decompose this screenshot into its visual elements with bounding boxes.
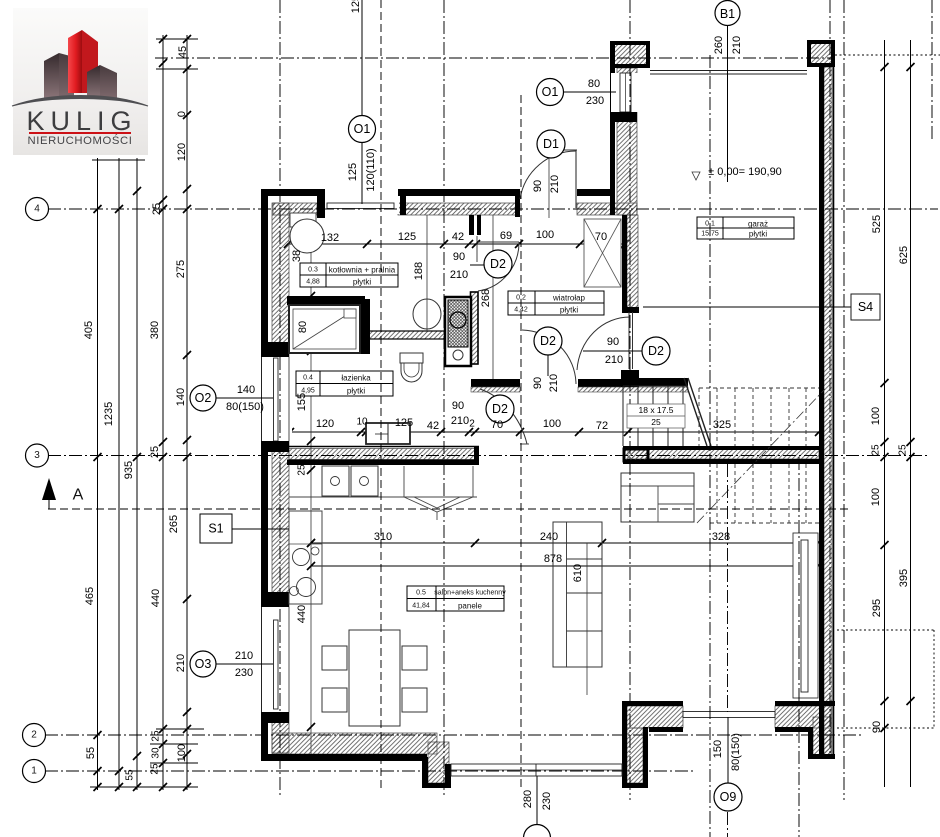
circle O2	[190, 385, 216, 411]
svg-text:268: 268	[480, 289, 492, 307]
svg-text:120: 120	[316, 418, 334, 430]
chain stubs	[156, 38, 198, 40]
logo swoosh	[12, 96, 148, 107]
svg-text:płytki: płytki	[353, 278, 371, 287]
vertical axis x710	[709, 55, 711, 837]
svg-text:S1: S1	[208, 522, 223, 536]
room label tables	[296, 217, 794, 611]
svg-text:150: 150	[712, 740, 724, 758]
svg-text:55: 55	[125, 769, 136, 781]
svg-text:± 0,00= 190,90: ± 0,00= 190,90	[708, 166, 782, 178]
svg-text:188: 188	[413, 262, 425, 280]
svg-text:płytki: płytki	[749, 230, 767, 239]
axis circle 2	[23, 724, 46, 747]
wall hatch right side	[824, 67, 832, 755]
svg-text:90: 90	[607, 336, 619, 348]
fixtures and furniture	[289, 213, 694, 726]
hall-salon walls	[471, 379, 520, 387]
window right wall tall	[793, 533, 818, 698]
bottom wall salon	[261, 754, 427, 761]
svg-text:D2: D2	[648, 344, 664, 358]
svg-text:D1: D1	[543, 137, 559, 151]
svg-text:132: 132	[321, 232, 339, 244]
svg-text:90: 90	[453, 251, 465, 263]
door D2 to stairs	[628, 312, 630, 369]
svg-text:100: 100	[176, 744, 188, 762]
svg-text:O1: O1	[354, 122, 371, 136]
svg-text:120(110): 120(110)	[365, 148, 377, 191]
svg-text:A: A	[73, 487, 84, 504]
svg-text:525: 525	[871, 215, 883, 233]
svg-text:210: 210	[451, 415, 469, 427]
wall hatch top-mid	[398, 203, 519, 215]
logo building center red	[68, 30, 82, 93]
ticks	[94, 205, 102, 213]
wall hatch top-left	[273, 203, 317, 215]
svg-text:NIERUCHOMOŚCI: NIERUCHOMOŚCI	[27, 134, 132, 147]
svg-text:25: 25	[151, 730, 162, 742]
svg-text:45: 45	[177, 46, 189, 58]
svg-text:610: 610	[572, 564, 584, 582]
circle D2 boiler	[484, 250, 512, 278]
stairs text	[627, 404, 685, 428]
wall hatch garage left upper	[617, 68, 637, 215]
svg-text:100: 100	[543, 418, 561, 430]
svg-text:125: 125	[398, 231, 416, 243]
svg-text:0.3: 0.3	[308, 267, 318, 274]
svg-text:395: 395	[898, 569, 910, 587]
svg-text:80: 80	[297, 321, 309, 333]
svg-text:łazienka: łazienka	[341, 374, 371, 383]
svg-text:3: 3	[34, 450, 40, 461]
svg-text:260: 260	[713, 36, 725, 54]
svg-text:25: 25	[297, 464, 308, 476]
circle O3	[190, 651, 216, 677]
wall hatch porch right post	[627, 728, 643, 783]
wall hatch garage left lower	[627, 215, 638, 308]
axis 2	[45, 734, 862, 736]
svg-text:1235: 1235	[103, 402, 115, 426]
dining table	[349, 630, 400, 726]
logo KULIG NIERUCHOMOSCI	[12, 8, 148, 155]
dim 188 line	[426, 215, 428, 331]
svg-text:80(150): 80(150)	[226, 401, 264, 413]
boiler	[290, 213, 316, 227]
axis circle 1	[23, 760, 46, 783]
right wall	[819, 67, 824, 759]
circle O9	[714, 783, 742, 811]
circle D2 bath	[486, 395, 514, 423]
table lazienka	[296, 371, 393, 396]
leader lines	[361, 142, 363, 204]
window 280x230 bottom	[451, 764, 622, 776]
sofa	[553, 522, 602, 667]
middle wall left span	[287, 446, 479, 448]
svg-text:D2: D2	[492, 402, 508, 416]
circle D2 stairs	[642, 337, 670, 365]
axis 4	[48, 208, 938, 210]
svg-text:4: 4	[34, 204, 40, 215]
vertical axis x830	[829, 0, 831, 757]
svg-text:295: 295	[871, 599, 883, 617]
svg-text:230: 230	[541, 792, 553, 810]
vertical axis x521 dashed	[520, 95, 522, 790]
porch left post	[422, 757, 428, 788]
kitchen counter top	[289, 496, 477, 498]
stairs	[623, 378, 825, 523]
garage pillar top-left	[612, 43, 648, 66]
wall hatch middle right (under stairs)	[628, 449, 819, 459]
table salon	[407, 586, 504, 611]
svg-text:30: 30	[151, 747, 162, 759]
svg-text:80(150): 80(150)	[730, 733, 742, 771]
stair dashed upper flight	[699, 388, 819, 446]
svg-text:18 x 17.5: 18 x 17.5	[639, 405, 674, 415]
svg-text:42: 42	[452, 231, 464, 243]
door D1 entrance	[553, 149, 577, 151]
svg-text:465: 465	[84, 587, 96, 605]
svg-text:120: 120	[176, 143, 188, 161]
svg-text:210: 210	[450, 269, 468, 281]
circle D1	[537, 130, 565, 158]
vertical axis x844	[843, 0, 845, 800]
svg-text:10: 10	[356, 417, 368, 428]
tv cabinet	[621, 473, 694, 522]
vertical axis x799	[798, 457, 800, 837]
wall hatch top-right	[577, 203, 637, 215]
top wall	[262, 189, 325, 196]
vertical axis x932	[931, 0, 933, 140]
svg-text:90: 90	[452, 400, 464, 412]
wardrobe vestibule	[584, 219, 621, 287]
svg-text:210: 210	[605, 354, 623, 366]
svg-text:155: 155	[296, 393, 308, 411]
svg-text:2: 2	[31, 730, 37, 741]
stair treads solid flight	[622, 386, 624, 446]
door D2 boiler room	[478, 241, 519, 243]
porch right post	[622, 701, 627, 788]
svg-text:625: 625	[898, 246, 910, 264]
kitchen counter left	[289, 511, 322, 604]
logo building left dark	[44, 53, 59, 98]
svg-text:41,84: 41,84	[412, 603, 430, 610]
svg-text:80: 80	[588, 78, 600, 90]
svg-text:2: 2	[469, 419, 475, 430]
svg-text:S4: S4	[858, 300, 873, 314]
svg-text:440: 440	[296, 605, 308, 623]
svg-text:935: 935	[123, 461, 135, 479]
logo red underline	[29, 132, 131, 134]
svg-text:O3: O3	[195, 657, 212, 671]
svg-text:210: 210	[235, 650, 253, 662]
interior dim lines	[288, 243, 625, 245]
dashed flight over salon	[710, 464, 819, 523]
window O1 top	[326, 197, 399, 214]
vertical axis x727	[727, 464, 729, 712]
section arrow A	[42, 478, 56, 500]
garage pillar top-right	[809, 42, 833, 65]
svg-text:wiatrołap: wiatrołap	[552, 294, 586, 303]
svg-text:310: 310	[374, 531, 392, 543]
svg-text:878: 878	[544, 553, 562, 565]
svg-text:salon+aneks kuchenny: salon+aneks kuchenny	[434, 590, 506, 597]
svg-text:100: 100	[536, 229, 554, 241]
svg-text:55: 55	[85, 747, 97, 759]
window O3 left	[259, 607, 292, 712]
svg-text:25: 25	[651, 417, 661, 427]
right dimension chain lines	[884, 40, 886, 787]
svg-text:25: 25	[150, 763, 161, 775]
axis B horizontal top	[155, 57, 835, 59]
dimension chains	[90, 35, 915, 791]
svg-text:230: 230	[235, 667, 253, 679]
level mark garage	[692, 172, 700, 180]
stair direction line	[697, 389, 825, 523]
svg-text:0.4: 0.4	[303, 375, 313, 382]
svg-text:125: 125	[350, 0, 362, 13]
dotted terrace outline bottom right	[837, 629, 935, 631]
shower	[289, 305, 360, 353]
svg-text:90: 90	[532, 180, 544, 192]
left dimension chain lines	[97, 158, 99, 790]
vertical axis x280	[279, 0, 281, 795]
svg-text:KULIG: KULIG	[26, 106, 137, 136]
svg-text:210: 210	[175, 654, 187, 672]
circle bottom clipped	[524, 825, 551, 837]
svg-text:0: 0	[176, 111, 188, 117]
section line A	[48, 508, 850, 510]
svg-text:100: 100	[870, 407, 882, 425]
svg-text:O2: O2	[195, 391, 212, 405]
svg-text:70: 70	[595, 231, 607, 243]
svg-text:275: 275	[175, 260, 187, 278]
radiator above middle wall	[366, 423, 410, 444]
svg-text:100: 100	[870, 488, 882, 506]
wall hatch middle left	[289, 449, 476, 460]
svg-text:230: 230	[586, 95, 604, 107]
svg-text:210: 210	[731, 36, 743, 54]
chairs	[322, 646, 347, 670]
boiler-bath divider	[287, 296, 365, 305]
svg-text:140: 140	[175, 388, 187, 406]
svg-text:70: 70	[491, 419, 503, 431]
door D2 hall-salon	[522, 330, 576, 384]
box S1	[200, 514, 232, 543]
walls	[261, 41, 835, 788]
svg-text:42: 42	[427, 420, 439, 432]
svg-text:4,88: 4,88	[306, 279, 320, 286]
windows and doors	[259, 71, 818, 777]
svg-text:280: 280	[522, 790, 534, 808]
bottom right wall section	[622, 701, 683, 706]
axis 1	[45, 770, 695, 772]
circle O1 top	[349, 116, 376, 143]
garage left wall	[610, 41, 615, 215]
window O9 bottom right	[683, 712, 775, 718]
svg-text:328: 328	[712, 531, 730, 543]
svg-text:B1: B1	[720, 7, 735, 21]
window O2 left	[259, 357, 292, 441]
svg-text:405: 405	[83, 321, 95, 339]
wall hatch left side	[272, 203, 289, 361]
svg-text:210: 210	[549, 175, 561, 193]
circle B1	[715, 1, 740, 26]
chimney shaft	[445, 297, 471, 366]
axis circle 4	[26, 198, 49, 221]
svg-text:O1: O1	[542, 85, 559, 99]
svg-text:25: 25	[871, 444, 882, 456]
table garaz	[697, 217, 794, 239]
middle wall right span	[623, 446, 819, 450]
logo building right dark	[87, 65, 100, 98]
table wiatrolap	[508, 291, 604, 315]
vertical axis x630	[629, 0, 631, 800]
stair stringer diagonal	[684, 378, 707, 446]
wall hatch bottom right section	[627, 706, 683, 728]
svg-text:O9: O9	[720, 790, 737, 804]
axis 3	[48, 455, 930, 457]
svg-text:210: 210	[548, 374, 560, 392]
svg-text:panele: panele	[458, 602, 483, 611]
svg-text:38: 38	[291, 250, 303, 262]
table kotlownia	[300, 263, 398, 287]
svg-text:1: 1	[31, 766, 37, 777]
svg-text:325: 325	[713, 419, 731, 431]
laundry basin	[413, 299, 441, 329]
wall hatch porch left post	[428, 742, 449, 783]
svg-text:płytki: płytki	[347, 387, 365, 396]
svg-text:72: 72	[596, 420, 608, 432]
svg-text:440: 440	[150, 589, 162, 607]
kitchen hood corner	[403, 466, 405, 497]
svg-text:D2: D2	[540, 334, 556, 348]
axis circle 3	[26, 444, 49, 467]
svg-text:90: 90	[532, 377, 544, 389]
svg-text:kotłownia + pralnia: kotłownia + pralnia	[329, 266, 396, 275]
circle D2 hall	[534, 327, 562, 355]
svg-text:90: 90	[871, 721, 883, 733]
svg-text:140: 140	[237, 384, 255, 396]
wall hatch bottom salon	[272, 733, 437, 754]
svg-text:0.5: 0.5	[416, 590, 426, 597]
hall west wall	[469, 215, 474, 235]
left wall	[261, 189, 268, 757]
logo background	[13, 8, 148, 155]
svg-text:garaż: garaż	[748, 220, 768, 229]
wall hatch laundry-bath divider	[369, 331, 445, 339]
svg-text:69: 69	[500, 230, 512, 242]
svg-text:125: 125	[347, 163, 359, 181]
svg-text:240: 240	[540, 531, 558, 543]
svg-text:D2: D2	[490, 257, 506, 271]
vertical axis x381 dashed	[380, 0, 382, 790]
svg-text:125: 125	[395, 417, 413, 429]
window O1 garage left	[611, 73, 639, 112]
box S4	[851, 294, 880, 320]
svg-text:380: 380	[149, 321, 161, 339]
garage door	[650, 70, 807, 72]
svg-text:265: 265	[168, 515, 180, 533]
circle O1 garage	[537, 79, 564, 106]
toilet	[400, 353, 423, 363]
vertical axis x444	[443, 0, 445, 795]
svg-text:25: 25	[149, 446, 161, 458]
svg-text:25: 25	[898, 444, 909, 456]
svg-text:25: 25	[151, 203, 163, 215]
svg-text:płytki: płytki	[560, 306, 578, 315]
